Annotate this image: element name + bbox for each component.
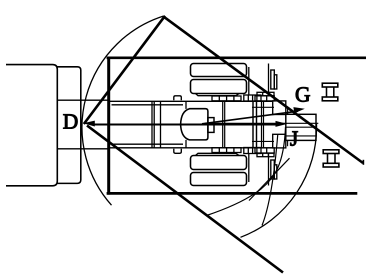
tractor rear tire inner top (191, 80, 247, 94)
arrowhead G (293, 107, 304, 113)
axle band under front wheel top (255, 96, 274, 101)
inner clearance arc (207, 127, 286, 216)
tie rod lines (262, 101, 264, 148)
hub connector top (185, 101, 187, 109)
turning circle arc (left/top) (82, 16, 163, 205)
center hub (181, 109, 208, 140)
svg-text:J: J (290, 126, 298, 150)
front tire bottom (271, 160, 277, 179)
axle lug row bottom inner (212, 148, 241, 153)
tractor rear tire outer bottom (191, 173, 247, 186)
front wheel sweep curve (262, 134, 278, 226)
steering row top (257, 92, 274, 96)
front frame ledge bottom (252, 140, 274, 142)
tractor rear tire outer top (191, 64, 247, 77)
rear fender line top (268, 64, 270, 97)
hub connector bottom (185, 140, 187, 148)
body outer line top (110, 100, 272, 102)
dimension line D-J shaft (92, 124, 277, 126)
tire lip top (196, 94, 240, 96)
hitch bar upper (57, 99, 110, 101)
body inner line bottom (112, 143, 184, 145)
front tire top (271, 70, 277, 89)
svg-text:D: D (63, 110, 79, 134)
stall top edge (107, 56, 366, 59)
implement inner box (57, 67, 81, 184)
right leg end tick (362, 160, 364, 165)
hub tab (pto) (208, 118, 214, 133)
axle lug row top inner (212, 96, 241, 101)
diagonal leader line 45deg (249, 158, 290, 200)
exhaust bump bottom (174, 149, 182, 154)
I-beam symbol upper (322, 83, 338, 101)
body inner line top (112, 104, 184, 106)
stall bottom edge (107, 192, 358, 195)
front frame top (273, 101, 286, 115)
implement outer profile (6, 65, 57, 186)
I-beam symbol lower (323, 150, 339, 167)
frame cross verticals (152, 101, 161, 148)
front frame ledge top (252, 106, 274, 108)
tire lip bottom (196, 153, 240, 155)
hitch bar lower (57, 148, 110, 150)
body outer line bottom (110, 147, 272, 149)
arrowhead D (83, 121, 95, 127)
kingpin line top (287, 109, 289, 115)
tire end vertical top (248, 67, 250, 95)
front box inner line (286, 127, 316, 136)
dimension line G (202, 111, 298, 124)
lower diagonal (87, 126, 283, 273)
axle hub block top (244, 95, 261, 101)
axle hub block bottom (244, 148, 261, 154)
tractor rear tire inner bottom (191, 156, 247, 170)
front box (286, 114, 316, 140)
rear axle shaft lines (253, 101, 257, 148)
arrowhead J (276, 121, 288, 127)
axle band under front wheel bottom (255, 148, 274, 153)
apex diagonal right leg (164, 17, 364, 163)
apex diagonal left leg (84, 16, 165, 124)
rear fender line bottom (268, 153, 270, 186)
thin axis centerline (205, 122, 318, 124)
svg-text:G: G (295, 83, 311, 107)
exhaust bump top (174, 96, 182, 101)
tire end vertical bottom (248, 154, 250, 182)
stall left edge (107, 57, 110, 195)
steering row bottom (257, 153, 274, 157)
turning circle arc (bottom-right) (241, 124, 317, 237)
kingpin line bottom (287, 140, 289, 146)
transmission shaft lines (223, 101, 225, 148)
front frame bottom (273, 134, 286, 148)
